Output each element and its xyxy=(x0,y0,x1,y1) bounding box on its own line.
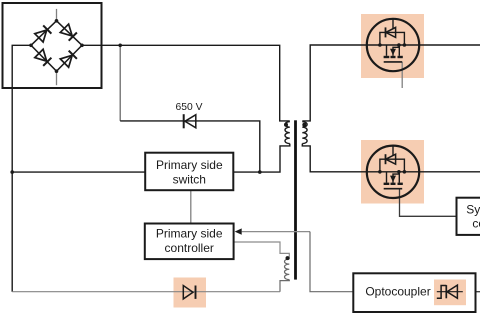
svg-text:Optocoupler: Optocoupler xyxy=(365,285,430,299)
svg-text:Primary side: Primary side xyxy=(156,227,223,241)
svg-text:switch: switch xyxy=(173,172,206,186)
svg-text:controller: controller xyxy=(165,241,214,255)
svg-text:Synchronous: Synchronous xyxy=(466,202,480,216)
svg-text:Primary side: Primary side xyxy=(156,158,223,172)
svg-text:controller: controller xyxy=(472,216,480,230)
svg-text:650 V: 650 V xyxy=(176,102,203,113)
